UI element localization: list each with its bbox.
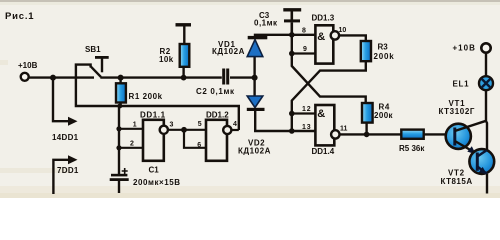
gate DD1.1 output inversion circle pin 3 [160,126,168,134]
svg-text:DD1.4: DD1.4 [312,147,335,156]
svg-text:Рис.1: Рис.1 [5,11,34,22]
switch SB1 blade [91,66,101,77]
wire: C3 top stem [290,12,293,20]
wire: R5 to VT1 base [424,133,454,135]
wire: DD1.3 output to R3 [339,35,366,41]
wire: VD1 anode lead [253,57,255,78]
svg-text:7DD1: 7DD1 [57,166,79,175]
svg-text:C1: C1 [149,166,160,175]
resistor R2 [180,44,190,67]
wire: R2 bottom lead [182,66,184,77]
svg-text:R1 200k: R1 200k [129,92,163,101]
transistor VT2 emitter with arrow [477,167,487,174]
wire: terminal to SB1 left contact [29,76,94,78]
transistor VT2 body [469,149,494,174]
node: R4 bottom junction on output line [364,132,370,138]
svg-text:12: 12 [302,106,311,113]
node: junction pin3/pin5/pin6 [181,127,187,133]
svg-text:200к: 200к [374,111,394,120]
svg-text:9: 9 [303,46,307,53]
switch SB1 actuator bar [95,56,109,59]
node: DD1.1 pin2 junction [116,145,121,150]
svg-text:10: 10 [339,27,347,34]
transistor VT2 base bar [476,153,479,171]
svg-text:DD1.2: DD1.2 [206,111,229,120]
svg-text:14DD1: 14DD1 [52,133,79,142]
wire: pin 12 [292,112,316,114]
wire: pin 9 [292,52,316,54]
svg-text:4: 4 [233,121,237,128]
svg-text:2: 2 [130,140,134,147]
resistor R4 [362,103,373,123]
switch SB1 actuator stem [101,58,103,73]
wire: DD1.2 output to feedback loop corner [232,129,239,131]
svg-text:КД102А: КД102А [238,147,271,156]
svg-text:EL1: EL1 [453,80,470,89]
svg-text:11: 11 [340,126,348,133]
wire: pin 8 line from VD1 to DD1.3 [255,35,315,37]
wire: SB1 right contact to C2 [100,76,222,78]
gate DD1.3 output inversion circle pin 10 [331,31,339,39]
transistor VT1 base bar [453,128,456,146]
capacitor C2 right plate [226,69,229,85]
arrowhead 7DD1 [68,155,78,164]
capacitor C1 bottom plate [110,178,129,181]
resistor R5 [401,130,423,139]
resistor R1 [116,83,126,102]
+10V right terminal circle [481,43,490,52]
node: DD1.1 pin1 junction [116,126,121,131]
node: pin 9 junction [289,51,295,57]
wire: down to 14DD1 arrow [53,78,71,122]
wire: C1 bottom lead [118,181,120,193]
wire: C3 bottom stem [290,22,293,34]
wire: C2 to diode junction [230,76,255,78]
wire: bypass loop from SB1 left down and right to DD1.2 output [76,78,239,130]
+10V left terminal circle [21,73,29,81]
diode VD1 cathode bar [248,36,268,39]
wire: R3 bottom, left and diagonal B down to pins 12/13 [292,61,366,131]
svg-text:&: & [317,31,325,43]
svg-text:C2 0,1мк: C2 0,1мк [196,87,235,96]
node: VD1/VD2 junction [252,75,258,81]
svg-text:КТ815А: КТ815А [441,177,473,186]
wire: pin 1 [119,128,143,130]
transistor VT1 body [446,124,471,149]
gate DD1.4 box [315,105,334,145]
svg-text:13: 13 [302,124,311,131]
svg-text:1: 1 [133,121,137,128]
node: C3 junction on pin 8 line [289,32,295,38]
svg-text:200k: 200k [374,52,395,61]
svg-text:R5 36к: R5 36к [399,144,425,153]
wire: EL1 to collectors rail [486,90,487,150]
gate DD1.4 output inversion circle pin 11 [331,130,339,138]
svg-text:КД102А: КД102А [212,47,245,56]
svg-text:SB1: SB1 [85,45,101,54]
resistor R2 top supply bar [176,23,192,26]
capacitor C3 plate [284,19,300,22]
svg-text:КТ3102Г: КТ3102Г [439,107,476,116]
wire: VD2 cathode down and right to pin 13 [255,111,315,131]
wire: R1 bottom lead down to DD1.1 inputs and C1 [119,103,121,175]
svg-text:&: & [317,108,325,120]
node: R2 bottom junction [181,75,187,81]
diode VD1 triangle [247,40,263,57]
gate DD1.1 box [143,120,164,161]
transistor VT2 collector [477,150,487,157]
transistor VT1 emitter with arrow [455,141,477,154]
wire: DD1.4 output to R5 [340,133,402,135]
svg-text:DD1.1: DD1.1 [140,111,166,120]
capacitor C1 top plate [111,174,127,177]
node: pin 12 junction [289,111,295,117]
resistor R3 [361,41,371,61]
wire: VD2 anode lead [253,78,255,97]
switch SB1 fixed contact riser and top line [76,65,91,78]
wire: DD1.1 out to DD1.2 in [168,129,206,131]
wire: pin 2 [119,147,143,149]
wire: tie pins 8-9 vertical and diagonal A to R4 line [292,35,366,103]
node: pin 13 junction [289,128,295,134]
capacitor C1 plus sign [122,168,128,174]
wire: 7DD1 from bottom edge [53,160,70,194]
svg-text:0,1мк: 0,1мк [254,19,278,28]
wire: branch down to pin 6 [184,130,206,148]
svg-text:8: 8 [302,28,306,35]
svg-text:+10В: +10В [18,61,38,70]
svg-text:3: 3 [170,122,174,129]
node: junction on +10V wire [50,75,56,81]
wire: R1 top lead [119,78,121,84]
node: R1 top junction [118,75,124,81]
lamp EL1 cross [481,79,490,88]
svg-text:R3: R3 [378,43,389,52]
wire: VT2 emitter lead down [486,174,488,194]
svg-text:6: 6 [197,142,201,149]
svg-text:5: 5 [198,121,202,128]
wire: R4 bottom lead [365,123,367,135]
lamp EL1 body [479,76,493,90]
transistor VT1 collector [455,121,486,131]
svg-text:+10В: +10В [453,44,476,53]
wire: right terminal to EL1 [485,52,487,76]
diode VD2 triangle [247,96,263,108]
wire: R2 top lead [183,27,185,45]
gate DD1.2 box [206,120,227,161]
capacitor C2 left plate [222,69,225,85]
gate DD1.3 box [315,25,333,63]
gate DD1.2 output inversion circle pin 4 [223,126,231,134]
diode VD2 cathode bar [247,108,265,111]
svg-text:10k: 10k [159,55,174,64]
svg-text:DD1.3: DD1.3 [312,14,335,23]
node: R1 bottom on loop wire [117,104,122,109]
svg-text:200мк×15В: 200мк×15В [133,178,181,187]
capacitor C3 top supply bar [283,8,301,11]
arrowhead 14DD1 [68,117,78,126]
